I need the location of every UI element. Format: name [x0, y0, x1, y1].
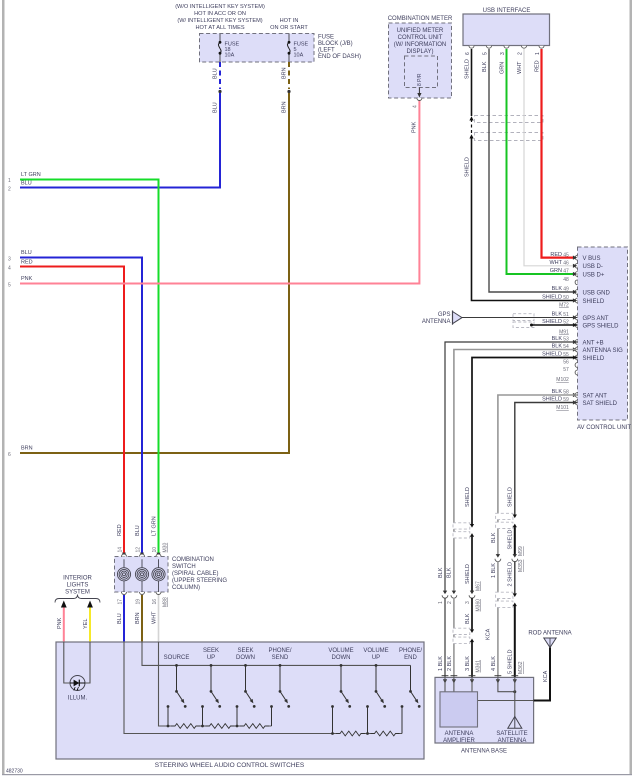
svg-text:KCA: KCA — [485, 628, 491, 640]
svg-text:SWITCH: SWITCH — [172, 564, 196, 570]
arrow into base pin5 — [513, 679, 517, 683]
wire w2 lower — [453, 598, 455, 678]
svg-text:UNIFIED METER: UNIFIED METER — [397, 28, 444, 34]
svg-text:48: 48 — [563, 277, 569, 283]
switch PHONE/ SEND contacts — [270, 664, 290, 726]
GPS shield dashed box lower — [513, 322, 534, 328]
wire BLU solid from splice to row 2 — [20, 93, 220, 188]
svg-text:M91: M91 — [559, 330, 569, 336]
switch VOLUME DOWN contacts — [331, 664, 351, 735]
AV pin 45 V BUS — [550, 252, 600, 262]
resistor R5 — [371, 730, 400, 737]
antenna amplifier caption — [443, 731, 475, 744]
svg-text:FUSE: FUSE — [318, 35, 334, 41]
wire WHT usb pin 2 to pin 46 — [524, 49, 578, 266]
svg-text:USB INTERFACE: USB INTERFACE — [483, 8, 531, 14]
svg-text:56: 56 — [563, 360, 569, 366]
svg-text:BLU: BLU — [213, 102, 219, 113]
svg-text:WHT: WHT — [517, 61, 523, 74]
resistor R3 — [240, 723, 269, 730]
svg-text:M361: M361 — [475, 660, 481, 673]
svg-text:ROD ANTENNA: ROD ANTENNA — [528, 631, 571, 637]
satellite antenna caption — [496, 731, 527, 744]
svg-text:14: 14 — [118, 547, 124, 553]
wire WHT inside box to resistor bus — [159, 642, 272, 726]
AV pin 59 SAT SHIELD — [542, 397, 617, 407]
switch PHONE/ SEND label — [268, 648, 291, 661]
connector M360 w2 — [451, 591, 457, 599]
svg-text:BRN: BRN — [282, 67, 288, 79]
svg-text:HOT IN: HOT IN — [280, 18, 299, 24]
svg-text:47: 47 — [563, 269, 569, 275]
switch SEEK DOWN label — [236, 648, 255, 661]
svg-text:17: 17 — [118, 599, 124, 605]
spiral cable coil 1 — [117, 559, 130, 592]
switch VOLUME UP contacts — [366, 664, 386, 735]
wire BLU pin 17 down — [123, 595, 125, 642]
svg-text:SEEK: SEEK — [203, 648, 219, 654]
combination meter box — [389, 23, 452, 98]
svg-text:ON OR START: ON OR START — [270, 25, 308, 31]
svg-text:SEND: SEND — [272, 655, 289, 661]
svg-text:GPS: GPS — [438, 312, 451, 318]
splice dot fuse18 — [218, 90, 221, 93]
svg-text:3: 3 — [8, 257, 11, 263]
shield symbol left lower — [453, 628, 474, 643]
hot in on or start text — [270, 18, 308, 31]
shield drain dashed segment — [471, 119, 473, 134]
switch SOURCE label — [164, 655, 190, 661]
switch VOLUME UP label — [363, 648, 388, 661]
svg-text:BLU: BLU — [135, 525, 141, 536]
svg-text:RED: RED — [550, 252, 562, 258]
arrow from inner box to pin 4 — [417, 88, 421, 98]
page frame right bar — [630, 0, 633, 775]
splice dot fuse5 — [287, 90, 290, 93]
svg-text:49: 49 — [563, 287, 569, 293]
AV pin 53 ANT +B — [552, 336, 604, 346]
svg-text:USB D+: USB D+ — [583, 272, 605, 278]
svg-text:SAT SHIELD: SAT SHIELD — [583, 401, 618, 407]
bottom sockets — [122, 592, 162, 595]
LED illum circle — [70, 676, 85, 691]
svg-text:BLU: BLU — [213, 68, 219, 79]
AV pin 52 GPS SHIELD — [542, 319, 619, 329]
switch PHONE/ END contacts — [401, 665, 421, 733]
svg-text:45: 45 — [563, 252, 569, 258]
wire SHIELD pin55 down upper — [472, 358, 578, 525]
connector label M101 — [556, 405, 569, 411]
shield dashed box lower — [475, 133, 544, 141]
svg-text:M353: M353 — [518, 559, 524, 572]
connector label M91 — [559, 330, 569, 336]
svg-text:482730: 482730 — [6, 769, 23, 775]
combination switch box — [115, 557, 169, 593]
connector label M72 — [559, 303, 569, 309]
wire SHIELD pin59 down — [515, 403, 578, 515]
svg-text:GPS ANT: GPS ANT — [583, 316, 609, 322]
svg-text:SATELLITE: SATELLITE — [496, 731, 527, 737]
svg-text:(W/O INTELLIGENT KEY SYSTEM): (W/O INTELLIGENT KEY SYSTEM) — [175, 4, 265, 10]
svg-text:M30: M30 — [163, 543, 169, 553]
shield drain arrowheads — [469, 116, 473, 120]
wire BLK pin58 SAT ANT down — [498, 395, 578, 555]
wire SHIELD usb pin 6 upper — [471, 49, 473, 116]
svg-text:SHIELD: SHIELD — [508, 487, 514, 507]
svg-text:SHIELD: SHIELD — [464, 59, 470, 79]
USB interface box — [463, 14, 550, 46]
wire LT GRN end arrowhead — [156, 553, 160, 557]
connector M353 w5 — [512, 554, 518, 562]
svg-text:ANT +B: ANT +B — [583, 340, 604, 346]
connector M360 w1 — [442, 591, 448, 599]
svg-text:BLK: BLK — [552, 336, 563, 342]
connector label M102 — [556, 377, 569, 383]
svg-text:ANTENNA BASE: ANTENNA BASE — [461, 749, 507, 755]
switch SOURCE contacts — [167, 664, 187, 727]
svg-text:BLU: BLU — [21, 181, 32, 187]
svg-text:GRN: GRN — [550, 268, 562, 274]
svg-text:YEL: YEL — [83, 619, 89, 629]
GPS shield drain wire to pin 52 — [532, 324, 578, 326]
svg-text:M99: M99 — [518, 546, 524, 556]
svg-text:1: 1 — [8, 178, 11, 184]
connector label M99 — [518, 546, 524, 556]
svg-text:5: 5 — [8, 283, 11, 289]
svg-text:12: 12 — [136, 547, 142, 553]
rod antenna coax wire KCA — [534, 648, 550, 701]
svg-text:19: 19 — [136, 599, 142, 605]
wire SHIELD w3 mid — [471, 537, 473, 592]
arrow into base pin1 — [443, 679, 447, 683]
shield symbol left upper — [453, 523, 474, 538]
antenna amplifier box — [440, 692, 478, 727]
AV pin 56 — [563, 360, 577, 368]
svg-text:USB D-: USB D- — [583, 264, 603, 270]
svg-text:10: 10 — [152, 547, 158, 553]
illum wires inside box — [64, 642, 90, 683]
left row 3 BLU wire — [20, 258, 142, 554]
GPS shield drain dot — [530, 324, 533, 327]
svg-text:2: 2 — [518, 52, 524, 55]
svg-text:3: 3 — [500, 52, 506, 55]
svg-text:AMPLIFIER: AMPLIFIER — [443, 738, 475, 744]
AV pin 49 USB GND — [552, 286, 611, 296]
svg-text:46: 46 — [563, 261, 569, 267]
svg-text:1 BLK: 1 BLK — [438, 656, 444, 671]
svg-text:COLUMN): COLUMN) — [172, 585, 200, 591]
arrow into base pin2 — [452, 679, 456, 683]
AV pin 48 — [563, 277, 577, 285]
svg-text:5 SHIELD: 5 SHIELD — [508, 650, 514, 674]
wire BRN pin 19 down — [141, 595, 143, 642]
svg-text:M102: M102 — [556, 377, 569, 383]
brace — [55, 595, 100, 603]
wire BLU end arrowhead — [140, 553, 144, 557]
AV pin 47 USB D+ — [550, 268, 605, 278]
wire PNK to box — [63, 608, 65, 643]
svg-text:SHIELD: SHIELD — [583, 356, 605, 362]
svg-text:4: 4 — [8, 266, 11, 272]
svg-text:GPS SHIELD: GPS SHIELD — [583, 323, 620, 329]
wire GRN usb pin 3 to pin 47 — [507, 49, 578, 274]
connector label M67 — [475, 581, 481, 591]
wire BLU inside box to volume bus — [124, 642, 402, 734]
wire RED usb pin 1 to pin 45 — [542, 49, 578, 258]
unified meter inner dashed box — [405, 56, 438, 88]
unified meter control unit text — [394, 28, 447, 55]
resistor R2 — [206, 723, 235, 730]
svg-text:SAT ANT: SAT ANT — [583, 393, 608, 399]
svg-text:ANTENNA: ANTENNA — [498, 738, 527, 744]
svg-text:UP: UP — [207, 655, 215, 661]
svg-text:4: 4 — [413, 105, 419, 108]
svg-text:(W/ INTELLIGENT KEY SYSTEM): (W/ INTELLIGENT KEY SYSTEM) — [177, 18, 262, 24]
svg-text:6: 6 — [465, 52, 471, 55]
switch SEEK UP contacts — [201, 664, 221, 727]
GPS antenna symbol — [453, 311, 463, 325]
rod antenna symbol — [544, 638, 556, 648]
svg-text:57: 57 — [563, 367, 569, 373]
svg-text:SOURCE: SOURCE — [164, 655, 190, 661]
svg-text:LT GRN: LT GRN — [21, 172, 41, 178]
svg-text:BLK: BLK — [465, 613, 471, 624]
wire BLK pin53 ANT+B down — [445, 342, 578, 591]
svg-text:BLK: BLK — [552, 312, 563, 318]
AV control unit box — [578, 247, 628, 420]
combination switch caption — [172, 557, 227, 591]
AV pin 50 SHIELD — [542, 295, 605, 305]
svg-text:COMBINATION METER: COMBINATION METER — [388, 16, 453, 22]
svg-text:RED: RED — [534, 60, 540, 72]
svg-text:VOLUME: VOLUME — [363, 648, 388, 654]
wire w1 lower — [444, 598, 446, 678]
svg-text:DOWN: DOWN — [236, 655, 255, 661]
svg-text:SHIELD: SHIELD — [464, 157, 470, 177]
arrow up YEL — [87, 601, 93, 608]
svg-text:M72: M72 — [559, 303, 569, 309]
svg-text:PNK: PNK — [57, 617, 63, 629]
svg-text:SHIELD: SHIELD — [465, 564, 471, 584]
wire BLK pin54 ANTENNA SIG down — [454, 350, 578, 592]
svg-text:M88: M88 — [163, 597, 169, 607]
svg-text:BRN: BRN — [135, 612, 141, 624]
wire BRN dashed from fuse 5 — [288, 62, 290, 89]
USB sockets on bottom edge — [469, 46, 544, 49]
resistor R4 — [336, 730, 365, 737]
svg-text:50: 50 — [563, 295, 569, 301]
switch VOLUME DOWN label — [328, 648, 353, 661]
svg-text:M360: M360 — [475, 599, 481, 612]
svg-text:END: END — [404, 655, 417, 661]
svg-text:1: 1 — [438, 601, 444, 604]
switch SEEK DOWN contacts — [236, 664, 256, 727]
svg-text:STEERING WHEEL AUDIO CONTROL S: STEERING WHEEL AUDIO CONTROL SWITCHES — [155, 762, 305, 769]
svg-text:KCA: KCA — [543, 670, 549, 682]
svg-text:CONTROL UNIT: CONTROL UNIT — [398, 35, 443, 41]
wires pins 1-3 to amplifier — [445, 677, 472, 691]
svg-text:4 BLK: 4 BLK — [491, 656, 497, 671]
GPS shield dashed box upper — [513, 314, 534, 321]
svg-text:1 BLK: 1 BLK — [491, 563, 497, 578]
AV pin 58 SAT ANT — [552, 389, 608, 399]
svg-text:PHONE/: PHONE/ — [399, 648, 422, 654]
svg-text:8 P/R: 8 P/R — [417, 73, 423, 86]
left row 1 LT GRN wire — [20, 180, 159, 554]
svg-text:LIGHTS: LIGHTS — [67, 583, 89, 589]
shield symbol right upper — [496, 513, 517, 528]
resistor R1 — [171, 723, 200, 730]
AV pin 51 GPS ANT — [552, 312, 609, 322]
wire w5 lower to shield — [514, 561, 516, 593]
svg-text:16: 16 — [152, 599, 158, 605]
connector M353 w4 — [495, 554, 501, 562]
wire GPS ANT to pin 51 — [462, 317, 578, 319]
wire w5 bottom thick — [514, 606, 516, 677]
svg-text:3 BLK: 3 BLK — [465, 656, 471, 671]
svg-text:2: 2 — [8, 187, 11, 193]
svg-text:BLK: BLK — [491, 532, 497, 543]
wire BLK usb pin 5 to pin 49 — [489, 49, 578, 292]
AV pin 57 — [563, 367, 577, 375]
junction dot pin5 — [513, 690, 516, 693]
left row 4 RED wire — [20, 267, 124, 554]
svg-text:BLOCK (J/B): BLOCK (J/B) — [318, 41, 353, 47]
interior lights system label — [63, 576, 92, 596]
svg-text:WHT: WHT — [549, 260, 562, 266]
svg-text:UP: UP — [372, 655, 380, 661]
switch PHONE/ END label — [399, 648, 422, 661]
svg-text:USB GND: USB GND — [583, 290, 611, 296]
wire WHT pin 16 down — [158, 595, 160, 642]
svg-text:GRN: GRN — [499, 62, 505, 74]
wire pin4 to junction — [498, 677, 515, 691]
svg-text:PHONE/: PHONE/ — [268, 648, 291, 654]
svg-text:HOT IN ACC OR ON: HOT IN ACC OR ON — [194, 11, 246, 17]
svg-text:END OF DASH): END OF DASH) — [318, 54, 361, 60]
wire BRN solid from splice to row 6 — [20, 93, 289, 453]
svg-text:2 SHIELD: 2 SHIELD — [508, 562, 514, 586]
connector label M353 — [518, 559, 524, 572]
switch SEEK UP label — [203, 648, 219, 661]
antenna base box — [435, 677, 534, 743]
svg-text:(W/ INFORMATION: (W/ INFORMATION — [394, 42, 447, 48]
svg-text:BLU: BLU — [21, 250, 32, 256]
fuse block header text — [175, 4, 265, 31]
svg-text:HOT AT ALL TIMES: HOT AT ALL TIMES — [195, 25, 244, 31]
svg-text:SHIELD: SHIELD — [542, 295, 562, 301]
svg-text:V BUS: V BUS — [583, 256, 601, 262]
svg-text:SEEK: SEEK — [237, 648, 253, 654]
svg-text:(UPPER STEERING: (UPPER STEERING — [172, 578, 227, 584]
steering wheel audio control switches box — [56, 642, 424, 759]
LED symbol — [70, 680, 85, 691]
svg-text:M67: M67 — [475, 581, 481, 591]
wire pin5 to satellite antenna — [514, 677, 516, 716]
svg-text:COMBINATION: COMBINATION — [172, 557, 214, 563]
svg-text:(SPIRAL CABLE): (SPIRAL CABLE) — [172, 571, 218, 577]
spiral cable coil 2 — [135, 559, 148, 592]
fuse 18 10A — [218, 34, 239, 63]
svg-text:LT GRN: LT GRN — [152, 516, 158, 536]
satellite antenna symbol — [508, 717, 522, 729]
svg-text:DISPLAY): DISPLAY) — [407, 49, 434, 55]
svg-text:BLU: BLU — [117, 613, 123, 624]
svg-text:RED: RED — [117, 524, 123, 536]
svg-text:SHIELD: SHIELD — [508, 530, 514, 550]
connector label M361 — [475, 660, 481, 673]
fuse 5 10A — [287, 34, 308, 63]
page frame bottom line — [2, 774, 632, 775]
wire YEL to box — [89, 608, 91, 643]
svg-text:10A: 10A — [294, 53, 304, 59]
wire w3 lower to shield — [471, 598, 473, 630]
connector label M362 — [518, 661, 524, 674]
svg-text:BLK: BLK — [447, 567, 453, 578]
svg-text:SHIELD: SHIELD — [583, 299, 605, 305]
svg-text:INTERIOR: INTERIOR — [63, 576, 92, 582]
svg-text:ANTENNA: ANTENNA — [445, 731, 474, 737]
wire end ticks at antenna base — [442, 675, 519, 677]
GPS antenna label — [422, 312, 451, 325]
page frame left bar — [2, 0, 5, 775]
svg-text:6: 6 — [8, 452, 11, 458]
shield dashed box upper — [475, 116, 544, 123]
top sockets — [122, 554, 162, 557]
wire w3 bottom — [471, 642, 473, 677]
shield symbol right lower — [496, 592, 517, 607]
wire BRN inside box to switch bus — [142, 642, 411, 665]
svg-text:PNK: PNK — [412, 121, 418, 133]
fuse block (J/B) box — [200, 34, 315, 63]
svg-text:M101: M101 — [556, 405, 569, 411]
svg-text:WHT: WHT — [152, 611, 158, 624]
AV pin 55 SHIELD — [542, 352, 605, 362]
svg-text:BRN: BRN — [21, 446, 33, 452]
svg-text:PNK: PNK — [21, 276, 33, 282]
socket at combination meter pin 4 — [417, 98, 422, 101]
spiral cable coil 3 — [152, 559, 165, 592]
wire SHIELD w5 mid thick — [514, 527, 516, 555]
USB pin numbers — [465, 52, 541, 55]
svg-text:ILLUM.: ILLUM. — [68, 696, 88, 702]
svg-text:BLK: BLK — [552, 286, 563, 292]
AV pin 54 ANTENNA SIG — [552, 344, 624, 354]
connector label M360 — [475, 599, 481, 612]
svg-text:1: 1 — [535, 52, 541, 55]
svg-text:M362: M362 — [518, 661, 524, 674]
rod antenna feed line inside box — [478, 700, 534, 702]
svg-text:VOLUME: VOLUME — [328, 648, 353, 654]
arrow into base pin3 — [470, 679, 474, 683]
svg-text:BLK: BLK — [438, 567, 444, 578]
svg-text:(LEFT: (LEFT — [318, 48, 335, 54]
wire RED end arrowhead at comb switch — [122, 553, 126, 557]
AV pin 46 USB D- — [549, 260, 602, 270]
wire w4 lower — [497, 561, 499, 677]
svg-text:DOWN: DOWN — [332, 655, 351, 661]
arrow up PNK — [61, 601, 67, 608]
svg-text:ANTENNA: ANTENNA — [422, 319, 451, 325]
left row 5 PNK wire — [20, 101, 419, 284]
svg-text:SHIELD: SHIELD — [465, 487, 471, 507]
connector M360 w3 — [469, 591, 475, 599]
svg-text:BRN: BRN — [282, 101, 288, 113]
svg-text:AV CONTROL UNIT: AV CONTROL UNIT — [577, 425, 631, 431]
svg-text:2: 2 — [447, 601, 453, 604]
svg-text:RED: RED — [21, 260, 33, 266]
arrow into base pin4 — [496, 679, 500, 683]
